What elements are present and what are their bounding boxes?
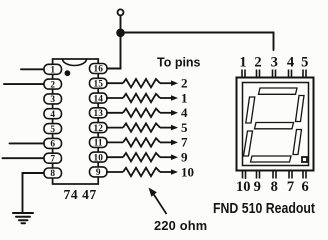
svg-text:7: 7	[50, 154, 55, 164]
svg-text:4: 4	[287, 55, 294, 71]
svg-text:FND 510 Readout: FND 510 Readout	[213, 201, 315, 217]
seven segment digit	[244, 88, 308, 162]
svg-text:4: 4	[50, 110, 55, 120]
svg-text:5: 5	[181, 120, 188, 135]
pin lead 5	[303, 70, 306, 78]
pin lead 4	[289, 70, 292, 78]
wire junction to display pin 3	[121, 33, 274, 51]
pin 8	[44, 168, 62, 178]
destination pin numbers	[181, 76, 194, 180]
svg-text:10: 10	[181, 164, 194, 179]
svg-text:5: 5	[301, 55, 308, 71]
svg-text:5: 5	[50, 125, 55, 135]
resistor R2 220 ohm, to display pin 1	[106, 94, 178, 102]
wire terminal to junction	[120, 16, 122, 30]
decimal point	[302, 157, 307, 162]
svg-text:3: 3	[271, 55, 278, 71]
display inner face	[243, 83, 309, 166]
svg-text:10: 10	[236, 179, 251, 195]
svg-text:8: 8	[50, 169, 55, 179]
segment d (bottom)	[251, 156, 292, 162]
pin 11	[90, 137, 108, 147]
pin 4	[44, 109, 62, 119]
segment b (top-right)	[296, 96, 305, 122]
IC U1 7447 body	[53, 59, 99, 184]
segment a (top)	[259, 88, 298, 94]
svg-text:10: 10	[94, 153, 104, 163]
pin 14	[90, 93, 108, 103]
resistor R5 220 ohm, to display pin 7	[106, 138, 178, 146]
pin lead 3	[273, 70, 276, 78]
resistor R3 220 ohm, to display pin 4	[106, 109, 178, 117]
segment c (bottom-right)	[293, 130, 302, 155]
svg-text:12: 12	[94, 124, 104, 134]
wire pin 8 to ground	[23, 173, 46, 213]
display bottom pin numbers	[236, 179, 309, 195]
pin 10	[90, 152, 108, 162]
segment g (middle)	[255, 123, 294, 129]
svg-text:220 ohm: 220 ohm	[154, 218, 207, 233]
pin lead 7	[289, 171, 292, 179]
svg-text:14: 14	[94, 94, 104, 104]
IC notch	[63, 59, 87, 66]
IC pin boxes left column	[44, 64, 107, 179]
pin 9	[90, 167, 108, 177]
display top pin leads	[242, 70, 306, 180]
pin lead 9	[257, 171, 260, 179]
wire to pin 6	[10, 142, 46, 144]
svg-text:8: 8	[271, 179, 278, 195]
svg-text:2: 2	[50, 80, 55, 90]
pin lead 10	[243, 171, 246, 180]
ground	[13, 213, 33, 223]
svg-text:7: 7	[181, 135, 188, 150]
svg-text:4: 4	[181, 105, 188, 120]
svg-text:1: 1	[50, 66, 55, 76]
pin 13	[90, 108, 108, 118]
pin lead 6	[303, 171, 306, 179]
svg-text:1: 1	[181, 90, 188, 105]
svg-text:74 47: 74 47	[64, 187, 97, 202]
svg-text:9: 9	[254, 179, 261, 195]
pin 16	[90, 64, 108, 74]
pin 6	[44, 138, 62, 148]
svg-text:15: 15	[94, 80, 104, 90]
wire junction to IC pin 16	[107, 33, 121, 69]
wire to pin 2	[4, 83, 45, 85]
svg-text:11: 11	[94, 139, 103, 149]
pin 5	[44, 124, 62, 134]
svg-text:13: 13	[94, 109, 104, 119]
segment e (bottom-left)	[244, 131, 253, 156]
pin 7	[44, 153, 62, 163]
resistor R4 220 ohm, to display pin 5	[106, 123, 178, 131]
pin lead 8	[273, 171, 276, 179]
wire to pin 1	[21, 68, 45, 70]
display DS1 FND 510 outer case	[237, 78, 314, 171]
terminal (open circle, supply input)	[118, 9, 124, 15]
svg-text:6: 6	[301, 179, 308, 195]
pin number labels	[50, 65, 103, 180]
pin 1	[44, 64, 62, 74]
svg-text:6: 6	[50, 140, 55, 150]
resistor R1 220 ohm, to display pin 2	[106, 79, 178, 87]
svg-text:1: 1	[239, 55, 246, 71]
svg-text:2: 2	[181, 76, 188, 91]
pin lead 1	[242, 70, 245, 78]
svg-text:3: 3	[50, 95, 55, 105]
svg-text:9: 9	[96, 168, 101, 178]
display top pin numbers	[239, 55, 308, 71]
pin 2	[44, 79, 62, 89]
resistor R6 220 ohm, to display pin 9	[106, 153, 178, 161]
pin 15	[90, 78, 108, 88]
pin 12	[90, 123, 108, 133]
junction dot	[116, 29, 125, 38]
svg-text:16: 16	[94, 65, 104, 75]
pin 3	[44, 94, 62, 104]
wire to pin 7	[3, 157, 46, 159]
svg-text:7: 7	[287, 179, 294, 195]
callout arrow for 220 ohm	[149, 188, 167, 215]
segment f (top-left)	[246, 97, 255, 123]
resistor R7 220 ohm, to display pin 10	[106, 168, 178, 176]
svg-text:9: 9	[181, 150, 188, 165]
pin lead 2	[257, 70, 260, 78]
svg-text:To pins: To pins	[157, 56, 201, 70]
pin-1 indicator dot	[65, 70, 71, 76]
svg-text:2: 2	[254, 55, 261, 71]
